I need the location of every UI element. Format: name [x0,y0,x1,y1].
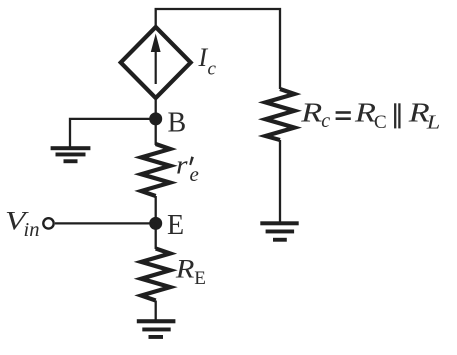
resistor r'e [141,144,170,196]
resistor Rc (right branch) [266,89,295,140]
ground (right branch) [260,221,298,241]
wire: input terminal to node E [55,222,156,224]
wire: resistor RE to bottom ground [155,301,157,321]
ground (left, at base) [51,146,91,163]
label Ic [198,43,217,80]
svg-text:L: L [426,112,441,133]
wire: top horizontal from current source to right branch [156,9,280,89]
svg-text:e: e [190,162,199,186]
ground (bottom of RE branch) [137,319,176,339]
svg-text:E: E [167,210,184,241]
label RE [175,255,206,289]
node E junction dot [149,217,162,230]
wire: node B to resistor r'e [155,119,157,145]
wire: node B to left ground [70,119,156,147]
current source U1 diamond [121,27,191,98]
svg-text:E: E [194,268,206,289]
wire: diamond bottom to node B [155,98,157,120]
svg-text:R: R [175,255,195,284]
label r'e [176,151,199,186]
svg-text:c: c [208,59,217,80]
svg-text:c: c [321,110,330,132]
current source arrow [151,34,161,85]
svg-text:C: C [374,112,387,133]
svg-text:in: in [24,219,40,241]
resistor RE [141,249,170,301]
wire: node E to resistor RE [155,223,157,249]
svg-text:R: R [354,97,376,128]
label Rc = RC || RL [300,97,440,134]
input terminal (open circle) [43,218,53,228]
wire: resistor r'e to node E [155,196,157,224]
wire: resistor Rc to right ground [279,140,281,222]
label Vin [5,206,40,241]
svg-text:R: R [300,97,322,128]
svg-text:r: r [176,151,188,180]
svg-text:B: B [168,108,187,139]
node B junction dot [149,112,162,125]
